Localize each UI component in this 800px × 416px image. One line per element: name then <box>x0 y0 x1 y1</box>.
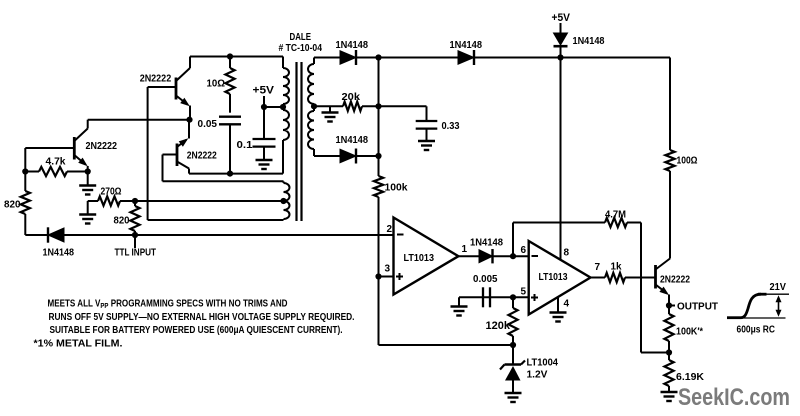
wire left vertical from base of Q1 down through 820 node <box>24 148 26 235</box>
node pin3 junction <box>375 273 381 279</box>
label 0.05 for C1 <box>198 118 218 130</box>
svg-text:2N2222: 2N2222 <box>86 140 118 152</box>
svg-text:4.7M: 4.7M <box>605 209 626 221</box>
wire top rail of driver block <box>190 56 283 58</box>
label 4.7M for R10 <box>605 209 626 221</box>
label 10ohm for R5 <box>207 78 226 90</box>
label 100ohm for R8 <box>677 155 698 167</box>
svg-text:100K′*: 100K′* <box>676 326 704 338</box>
node secondary center junction <box>311 103 317 109</box>
plus sign U1 <box>396 273 403 280</box>
plus sign U2 <box>531 294 538 301</box>
label # TC-10-04 <box>279 42 323 54</box>
svg-text:+5V: +5V <box>253 85 275 97</box>
svg-text:1N4148: 1N4148 <box>573 35 605 47</box>
transformer T1 secondary winding lower <box>308 106 314 156</box>
svg-text:LT1004: LT1004 <box>527 357 559 369</box>
label 1.2V <box>527 369 548 381</box>
svg-text:270Ω: 270Ω <box>101 186 122 198</box>
transistor Q4 2N2222 (output) <box>656 259 671 306</box>
svg-text:1N4148: 1N4148 <box>43 247 75 259</box>
node D1 output junction <box>375 54 381 60</box>
wire emitters node horizontal <box>88 119 190 121</box>
node 20k output junction <box>375 103 381 109</box>
svg-text:100k: 100k <box>385 182 408 194</box>
pin 4 label U2 <box>564 299 570 310</box>
label 0.33 for C3 <box>442 120 460 132</box>
wire pin3 net down to 120k bottom <box>379 277 513 346</box>
wire secondary top to diode D1 <box>314 57 340 59</box>
pin 1 label U1 <box>462 244 468 255</box>
svg-text:0.005: 0.005 <box>473 273 498 285</box>
diode D2 1N4148 (secondary bottom) <box>340 149 379 164</box>
ground at C4 <box>451 307 468 316</box>
wire secondary center to 20k <box>314 105 343 107</box>
svg-text:4.7k: 4.7k <box>46 156 66 168</box>
label 1k for R11 <box>611 261 622 273</box>
label 2N2222 for Q4 <box>660 274 690 286</box>
node emitter/4.7k junction <box>85 168 91 174</box>
minus sign U1 <box>397 234 404 236</box>
svg-text:TTL INPUT: TTL INPUT <box>115 247 157 259</box>
node 270R/820 junction <box>132 198 138 204</box>
op-amp U1 LT1013 (first) <box>394 218 459 295</box>
transformer T1 secondary winding upper <box>308 58 314 107</box>
label 2N2222 for Q1 <box>86 140 118 152</box>
capacitor C3 0.33 <box>416 121 438 141</box>
svg-text:6.19K: 6.19K <box>676 371 704 383</box>
wire TTL input bus y=235 from diode to op-amp U1 pin 2 <box>64 234 394 236</box>
label 100k for R7 <box>385 182 408 194</box>
node feedback winding center tap <box>280 198 286 204</box>
svg-text:OUTPUT: OUTPUT <box>677 301 719 313</box>
node TTL input junction with terminal stub <box>132 232 138 248</box>
resistor R8 100R vertical <box>665 150 674 259</box>
note line 1 <box>48 299 288 311</box>
label 270ohm for R3 <box>101 186 122 198</box>
node OUTPUT junction <box>666 302 672 308</box>
resistor R11 1k horizontal <box>591 273 656 282</box>
diode D7 LT1004 1.2V zener (pointing up) <box>500 345 525 393</box>
label 1N4148 for D2 <box>336 134 369 146</box>
wire 4.7M down to divider tap <box>641 223 669 353</box>
svg-text:1N4148: 1N4148 <box>470 237 503 249</box>
label 820 for R4 <box>114 215 130 227</box>
wire OUTPUT stub <box>669 305 675 307</box>
svg-text:1k: 1k <box>611 261 622 273</box>
svg-text:3: 3 <box>385 264 391 275</box>
label 1N4148 for D4 <box>573 35 605 47</box>
svg-text:1N4148: 1N4148 <box>336 39 369 51</box>
wire pin6 to 4.7M <box>513 223 605 257</box>
ground at pin 4 <box>550 313 567 322</box>
wire U1 output to D6 <box>458 255 479 257</box>
node divider junction <box>666 349 672 355</box>
label 20k for R6 <box>342 91 361 103</box>
ground at secondary center tap <box>322 106 339 121</box>
svg-text:1.2V: 1.2V <box>527 369 548 381</box>
node base/4.7k/820 junction <box>22 168 28 174</box>
transistor Q2 2N2222 (upper driver) <box>148 57 190 120</box>
label LT1013 for U2 <box>539 271 568 283</box>
resistor R9 120k vertical <box>508 297 517 345</box>
ground below 6.19K <box>661 392 678 401</box>
label DALE <box>290 31 312 43</box>
label 1N4148 for D1 <box>336 39 369 51</box>
node pin6 junction <box>510 253 516 259</box>
svg-text:20k: 20k <box>342 91 361 103</box>
svg-text:600μs RC: 600μs RC <box>737 324 776 336</box>
svg-text:2N2222: 2N2222 <box>187 150 217 162</box>
minus sign U2 <box>532 255 539 257</box>
label LT1004 <box>527 357 559 369</box>
svg-text:SUITABLE FOR BATTERY POWERED U: SUITABLE FOR BATTERY POWERED USE (600μA … <box>50 325 343 336</box>
wire Q3 base to upper winding end (cross-coupling) <box>163 155 284 182</box>
resistor R3 270R horizontal <box>88 196 135 205</box>
label 820 for R1 <box>4 199 21 211</box>
svg-text:MEETS ALL VPP PROGRAMMING SPEC: MEETS ALL VPP PROGRAMMING SPECS WITH NO … <box>48 299 288 311</box>
svg-text:+5V: +5V <box>552 12 571 24</box>
wire Q2 base to lower winding end (cross-coupling) <box>148 87 284 220</box>
svg-text:4: 4 <box>564 299 570 310</box>
label 2N2222 for Q3 <box>187 150 217 162</box>
label 600us RC <box>737 324 776 336</box>
wire 0.33 branch <box>379 106 427 121</box>
svg-text:2N2222: 2N2222 <box>140 73 172 85</box>
transistor Q3 2N2222 (lower driver) <box>163 120 190 174</box>
ground below C3 <box>418 141 435 150</box>
svg-text:100Ω: 100Ω <box>677 155 698 167</box>
transformer T1 primary winding upper <box>283 57 289 174</box>
label 1N4148 for D3 <box>450 39 483 51</box>
node D2 output junction <box>375 153 381 159</box>
svg-text:LT1013: LT1013 <box>539 271 568 283</box>
label 1N4148 for D6 <box>470 237 503 249</box>
wire pin 5 stub <box>483 296 529 298</box>
transistor Q1 2N2222 (left) <box>25 120 87 172</box>
wire bottom rail of driver block <box>189 173 283 175</box>
label +5V supply <box>253 85 275 97</box>
note line 3 <box>50 325 343 336</box>
svg-text:*1% METAL FILM.: *1% METAL FILM. <box>34 339 123 350</box>
pin 8 label U2 <box>564 248 570 259</box>
label 6.19K for R13 <box>676 371 704 383</box>
wire C4 to ground <box>459 297 483 306</box>
svg-text:2: 2 <box>387 224 393 235</box>
pin 3 label U1 <box>385 264 391 275</box>
pin 2 label U1 <box>387 224 393 235</box>
node +5V junction <box>261 104 267 110</box>
diode D5 1N4148 on TTL line (pointing left) <box>25 227 64 242</box>
transformer T1 feedback winding <box>284 181 290 220</box>
note line 2 <box>49 312 355 323</box>
svg-text:SeekIC.com: SeekIC.com <box>678 384 790 411</box>
label 2N2222 for Q2 <box>140 73 172 85</box>
resistor R5 10R vertical <box>225 57 234 113</box>
resistor R12 100K vertical <box>664 306 673 353</box>
note line 4 <box>34 339 123 350</box>
pin 6 label U2 <box>521 245 527 256</box>
label 0.005 for C4 <box>473 273 498 285</box>
ground below Q1 emitter <box>79 172 96 195</box>
wire pin 8 supply from +5V bus <box>560 58 562 261</box>
label OUTPUT <box>677 301 719 313</box>
wire secondary bottom to diode D2 <box>314 155 340 157</box>
resistor R13 6.19K vertical <box>664 353 673 393</box>
wire pin 3 stub <box>379 276 394 278</box>
svg-text:1: 1 <box>462 244 468 255</box>
wire feedback tap to transformer center <box>135 200 284 202</box>
svg-text:# TC-10-04: # TC-10-04 <box>279 42 323 54</box>
resistor R10 4.7M horizontal <box>605 218 641 227</box>
wire top bus from rail to D3 <box>379 57 459 59</box>
svg-text:120k: 120k <box>486 320 511 332</box>
diode D6 1N4148 (U1 output) <box>479 249 529 263</box>
diode D4 1N4148 from +5V (pointing down) <box>554 23 568 58</box>
label LT1013 for U1 <box>404 252 435 264</box>
label 4.7k for R2 <box>46 156 66 168</box>
capacitor C1 0.05 <box>219 117 241 174</box>
ground below 270R left end <box>79 201 96 224</box>
svg-text:10Ω: 10Ω <box>207 78 226 90</box>
pin 5 label U2 <box>521 287 527 298</box>
wire +5V to winding tap <box>264 96 283 139</box>
diode D1 1N4148 (secondary top) <box>340 50 379 65</box>
node primary center tap <box>280 104 286 110</box>
svg-text:0.05: 0.05 <box>198 118 218 130</box>
wire rectified rail vertical <box>378 58 380 177</box>
svg-text:5: 5 <box>521 287 527 298</box>
svg-text:820: 820 <box>114 215 130 227</box>
resistor R2 4.7k horizontal <box>25 167 87 176</box>
waveform 21V arrow <box>776 295 782 316</box>
svg-text:6: 6 <box>521 245 527 256</box>
label 1N4148 for D5 <box>43 247 75 259</box>
ground below C2 <box>256 160 273 169</box>
resistor R7 100k vertical <box>374 176 383 277</box>
svg-text:820: 820 <box>4 199 21 211</box>
capacitor C2 0.1 <box>253 139 276 160</box>
svg-text:0.33: 0.33 <box>442 120 460 132</box>
op-amp U2 LT1013 (second) <box>529 241 591 315</box>
watermark SeekIC.com <box>678 384 790 411</box>
node 10R top junction <box>227 53 233 59</box>
wire pin 4 to ground <box>557 297 559 313</box>
svg-text:0.1: 0.1 <box>237 139 253 151</box>
pin 7 label U2 <box>595 262 601 273</box>
svg-text:1N4148: 1N4148 <box>336 134 369 146</box>
node pin5 junction <box>510 294 516 300</box>
svg-text:2N2222: 2N2222 <box>660 274 690 286</box>
waveform icon rising exponential <box>727 294 789 318</box>
label TTL INPUT <box>115 247 157 259</box>
node 0.05 bottom junction <box>227 171 233 177</box>
label 100K* for R12 <box>676 326 704 338</box>
ground below LT1004 <box>505 393 522 402</box>
wire top bus to right corner <box>561 58 671 151</box>
resistor R6 20k horizontal <box>343 102 379 111</box>
label +5V at top <box>552 12 571 24</box>
svg-text:7: 7 <box>595 262 601 273</box>
svg-text:RUNS OFF 5V SUPPLY—NO EXTERNAL: RUNS OFF 5V SUPPLY—NO EXTERNAL HIGH VOLT… <box>49 312 355 323</box>
svg-text:8: 8 <box>564 248 570 259</box>
node +5V diode junction <box>557 54 563 60</box>
resistor R4 820 vertical <box>130 201 139 235</box>
node 120k bottom junction <box>510 342 516 348</box>
capacitor C4 0.005 (horizontal) <box>483 287 490 307</box>
resistor R1 820 vertical <box>21 191 30 214</box>
svg-text:1N4148: 1N4148 <box>450 39 483 51</box>
node emitters junction <box>186 117 192 123</box>
transformer T1 core <box>297 62 302 221</box>
label 0.1 for C2 <box>237 139 253 151</box>
diode D3 1N4148 (series, pointing right) <box>458 50 561 65</box>
label 21V <box>770 281 787 293</box>
svg-text:21V: 21V <box>770 281 787 293</box>
svg-text:LT1013: LT1013 <box>404 252 435 264</box>
label 120k for R9 <box>486 320 511 332</box>
